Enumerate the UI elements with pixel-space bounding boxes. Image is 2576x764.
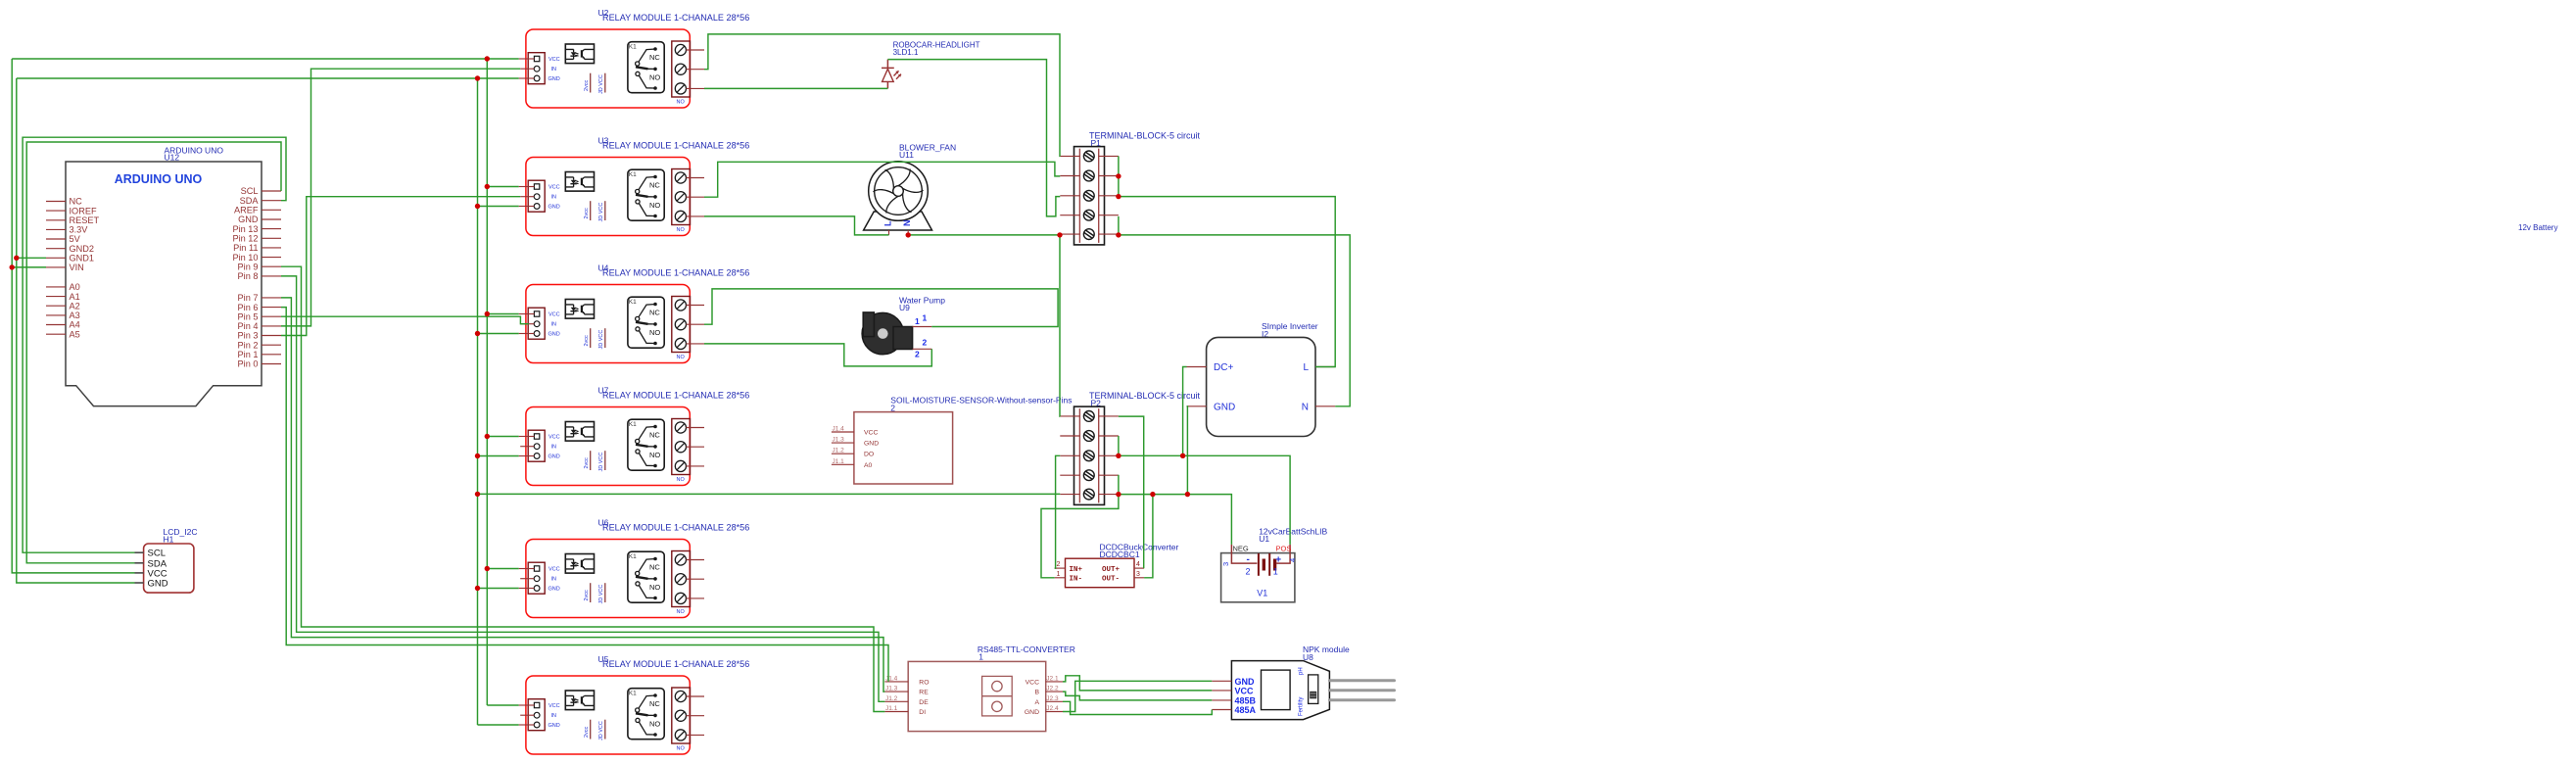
svg-text:VCC: VCC [549,703,560,709]
wire GND bus to U3 GND [478,206,519,208]
junction U6 GND tap [475,586,480,591]
battery POS pin [1276,545,1290,563]
pin P2 pin 2 right stub [1099,435,1119,437]
pin U12 pin A3 [46,314,66,316]
junction P1 pin2 right junction [1116,173,1121,178]
svg-text:J1.1: J1.1 [885,705,898,712]
svg-text:3: 3 [1136,571,1140,578]
pin DCDCBC1 pin 3 OUT- [1134,577,1144,579]
pin U12 pin Pin 6 [262,307,281,309]
wire VIN to 12V rail [12,266,46,268]
wire VCC bus vertical [486,59,488,705]
pin U11 pin N [907,230,909,235]
svg-text:IN: IN [551,577,557,583]
wire P2 pin1 to DCDC OUT+ [1119,416,1144,568]
wire GND bus vertical [477,78,479,725]
wire 12V rail left drop to LCD VCC [12,59,134,573]
pin U2 VCC stub [519,58,535,60]
junction P1 pin5 right junction [1116,232,1121,237]
svg-text:2vcc: 2vcc [584,726,590,738]
dcdc DCDCBC1 body [1066,558,1135,588]
relay U7 screw COM [675,442,686,453]
pin U5 terminal COM stub [687,715,705,717]
svg-text:1: 1 [923,313,928,323]
svg-text:K1: K1 [629,691,637,697]
svg-text:A: A [1034,699,1039,706]
relay U3 2vcc net label [590,201,592,220]
svg-text:NO: NO [649,73,660,82]
pin U12 pin Pin 7 [262,297,281,299]
junction U7 GND tap [475,454,480,458]
pin P2 pin 3 left stub [1060,454,1079,456]
svg-text:DC+: DC+ [1214,362,1233,373]
svg-text:RO: RO [919,679,929,686]
svg-text:SCL: SCL [241,186,259,196]
svg-text:NO: NO [677,100,686,106]
wire P2 pin5 to DCDC IN- [1041,495,1119,578]
pin U3 VCC stub [519,186,535,188]
svg-text:ARDUINO UNO: ARDUINO UNO [115,172,203,186]
pin P1 pin 3 right stub [1099,195,1119,197]
relay U5 screw NO [675,730,686,740]
junction P2 pin3 right junction [1116,454,1121,458]
relay U6 JD VCC net label [604,583,606,602]
svg-text:SOIL-MOISTURE-SENSOR-Without-s: SOIL-MOISTURE-SENSOR-Without-sensor-Pins [890,396,1072,406]
led 3LD1.1 symbol [882,60,894,89]
svg-text:DO: DO [864,452,874,458]
pin P1 pin 1 left stub [1060,155,1079,157]
pin RS485 pin J1.3 RE [884,691,908,692]
pin U2 GND stub [519,77,535,79]
svg-text:GND: GND [148,579,168,590]
svg-text:A0: A0 [864,462,873,469]
pin U12 pin Pin 3 [262,335,281,337]
svg-text:IN: IN [551,67,557,72]
svg-text:VCC: VCC [1235,686,1255,695]
pin U12 pin Pin 4 [262,325,281,327]
pin soil pin J1.1 A0 [832,463,854,465]
pin U6 IN stub [520,578,534,580]
svg-text:VCC: VCC [1026,679,1039,686]
battery cell bars [1258,553,1260,576]
svg-text:IN-: IN- [1070,576,1083,584]
pin U12 pin GND [262,218,281,220]
svg-text:NO: NO [649,328,660,337]
svg-text:U9: U9 [899,303,910,312]
relay U7 contactor K1 [628,419,664,470]
pin U12 pin IOREF [46,210,66,212]
svg-text:2vcc: 2vcc [584,590,590,601]
pin H1 pin SCL [135,551,144,553]
relay module U5 body [526,676,690,754]
junction U7 VCC tap [485,434,490,439]
relay U3 input connector J [528,180,545,212]
svg-text:IN+: IN+ [1070,566,1083,574]
pin U4 GND stub [519,333,535,335]
svg-text:J2.1: J2.1 [1046,675,1059,682]
svg-text:2: 2 [1057,561,1061,568]
wire U3 COM to P1 pin2 [704,162,1060,197]
svg-text:Pin 4: Pin 4 [238,321,259,331]
wire Pin4 to U2 IN [281,69,520,326]
relay U6 screw NO [675,593,686,603]
svg-text:K1: K1 [629,44,637,51]
pin I2 pin L [1315,366,1335,368]
wire P1 pin3 to inverter L [1119,197,1335,367]
junction VCC bus origin [485,56,490,61]
pin U7 terminal NC stub [687,427,705,429]
svg-text:J2.4: J2.4 [1046,705,1059,712]
svg-text:RELAY MODULE 1-CHANALE 28*56: RELAY MODULE 1-CHANALE 28*56 [602,523,749,533]
pin U6 terminal NC stub [687,559,705,561]
wire Pin7 to RS485 RE [281,298,884,692]
relay U4 output terminal [672,297,691,353]
relay U5 output terminal [672,688,691,743]
pin P1 pin 3 left stub [1060,195,1079,197]
svg-text:OUT+: OUT+ [1102,566,1121,574]
svg-text:POS: POS [1276,545,1292,553]
pin U3 IN stub [520,196,534,198]
terminal P2 screw 5 [1083,489,1094,500]
relay U7 output terminal [672,419,691,475]
svg-text:IN: IN [551,195,557,201]
svg-text:1: 1 [915,316,920,326]
pin P2 pin 1 left stub [1060,415,1079,417]
svg-text:NEG: NEG [1233,545,1249,553]
pin DCDCBC1 pin 4 OUT+ [1134,567,1144,569]
pin U5 VCC stub [519,704,535,706]
svg-text:NO: NO [649,201,660,210]
svg-text:Pin 3: Pin 3 [238,331,259,341]
pin U7 terminal NO stub [687,465,705,467]
pin U7 IN stub [520,446,534,448]
svg-text:RELAY MODULE 1-CHANALE 28*56: RELAY MODULE 1-CHANALE 28*56 [602,659,749,669]
pin U5 IN stub [520,714,534,716]
wire GND rail top [17,77,519,79]
svg-text:JD VCC: JD VCC [598,453,604,472]
relay U4 screw NC [675,300,686,310]
relay module U4 body [526,285,690,363]
relay U5 input connector J [528,699,545,731]
svg-text:1: 1 [1057,571,1061,578]
svg-text:IN: IN [551,445,557,451]
pin U7 VCC stub [519,436,535,438]
relay U2 output terminal [672,41,691,97]
relay U4 2vcc net label [590,328,592,348]
relay module U6 body [526,540,690,618]
junction U4 VCC tap [485,311,490,316]
junction fan N junction [906,232,911,237]
svg-text:VCC: VCC [549,185,560,191]
pin U12 pin GND1 [46,257,66,259]
svg-text:SImple Inverter: SImple Inverter [1262,321,1318,331]
pin U2 IN stub [520,68,534,70]
svg-text:VIN: VIN [70,263,84,272]
svg-text:NO: NO [649,720,660,729]
wire P2 right tie pins 4-5 [1118,475,1120,495]
svg-text:A2: A2 [70,301,80,310]
wire P2 right tie pins 2-3 [1118,436,1120,455]
junction U4 GND tap [475,331,480,336]
terminal P2 screw 3 [1083,451,1094,461]
pin U12 pin A5 [46,333,66,335]
svg-text:AREF: AREF [234,206,259,215]
pin U6 terminal NO stub [687,597,705,599]
terminal P1 screw 5 [1083,229,1094,240]
wire GND bus to U5 GND [478,724,519,726]
svg-text:A1: A1 [70,292,80,302]
svg-text:A3: A3 [70,310,80,320]
svg-text:Pin 0: Pin 0 [238,359,259,369]
svg-text:NO: NO [677,355,686,360]
relay U5 optocoupler [565,691,594,710]
svg-text:2vcc: 2vcc [584,457,590,469]
svg-text:pH: pH [1299,667,1305,675]
svg-text:Pin 13: Pin 13 [232,224,258,234]
svg-text:2vcc: 2vcc [584,208,590,219]
U8 inner chip [1262,670,1291,710]
svg-text:DCDCBC1: DCDCBC1 [1100,549,1140,559]
svg-text:Pin 2: Pin 2 [238,340,259,350]
svg-text:N: N [902,220,912,227]
svg-text:NO: NO [649,451,660,459]
U8 probe prongs [1329,679,1394,682]
pin U4 terminal NO stub [687,343,705,345]
relay U2 contactor K1 [628,42,664,93]
svg-text:U1: U1 [1259,534,1269,544]
wire P1 right tie pins 1-3 [1118,156,1120,196]
junction VIN junction [10,264,15,269]
RS485 jumper header [982,676,1013,716]
wire P1 pin5 to P2 pin1 [1059,235,1061,416]
pin U12 pin Pin 11 [262,247,281,249]
pin U2 terminal NO stub [687,87,705,89]
pin U12 pin 3.3V [46,228,66,230]
svg-text:2: 2 [915,350,920,359]
svg-text:Pin 1: Pin 1 [238,350,259,359]
svg-text:JD VCC: JD VCC [598,585,604,604]
svg-text:J2.2: J2.2 [1046,686,1059,692]
relay module U3 body [526,158,690,236]
relay U2 screw NC [675,44,686,55]
pin RS485 pin J2.2 B [1046,691,1063,692]
pin U4 terminal COM stub [687,323,705,325]
svg-text:RS485-TTL-CONVERTER: RS485-TTL-CONVERTER [978,645,1075,654]
U8 switch [1309,675,1318,704]
pin U12 pin A0 [46,286,66,288]
terminal P2 screw 4 [1083,470,1094,481]
svg-text:GND: GND [1235,677,1256,687]
svg-text:GND: GND [549,205,560,211]
relay U7 optocoupler [565,422,594,442]
wire GND bus to U7 GND [478,455,519,457]
pin U12 pin 5V [46,238,66,240]
junction U3 GND tap [475,204,480,209]
pump U9 body [862,312,903,354]
wire GND1 to GND rail [17,257,46,259]
pin U5 GND stub [519,724,535,726]
wire P2 pin3 to inverter DC+ [1183,367,1187,456]
svg-text:A0: A0 [70,282,80,292]
pin DCDCBC1 pin 2 IN+ [1055,567,1066,569]
svg-text:RELAY MODULE 1-CHANALE 28*56: RELAY MODULE 1-CHANALE 28*56 [602,391,749,401]
svg-text:5V: 5V [70,234,81,244]
svg-text:NO: NO [677,746,686,752]
wire SCL to LCD [26,142,281,563]
wire Pin5 to U4 IN [281,316,529,324]
pin U12 pin A4 [46,324,66,326]
wire VCC bus to U6 VCC [487,568,518,570]
pin U9 pin 2 stub [913,348,932,350]
pin RS485 pin J2.4 GND [1046,711,1063,713]
pin H1 pin GND [135,582,144,584]
wire P2 pin3 to DCDC IN+ [1055,455,1061,568]
terminal P1 screw 3 [1083,190,1094,201]
relay U6 output terminal [672,551,691,607]
svg-text:TERMINAL-BLOCK-5 circuit: TERMINAL-BLOCK-5 circuit [1089,391,1201,401]
svg-text:GND: GND [549,587,560,593]
pin U8 pin 485A [1212,709,1231,711]
svg-text:Pin 11: Pin 11 [233,243,258,253]
svg-text:A5: A5 [70,329,80,339]
wire P2 pin5 to inverter GND [1186,406,1189,495]
svg-text:VCC: VCC [549,567,560,573]
svg-text:Pin 9: Pin 9 [238,262,259,271]
pin U12 pin Pin 1 [262,354,281,356]
pin U6 terminal COM stub [687,578,705,580]
wire U4 COM to pump pin1 [704,289,1058,327]
pin soil pin J1.3 GND [832,442,854,444]
relay U6 input connector J [528,562,545,594]
pin U9 pin 1 stub [913,326,932,328]
svg-text:NO: NO [677,227,686,233]
wire RS485 A to NPK 485A [1063,701,1212,714]
pin U12 pin Pin 13 [262,228,281,230]
svg-text:4: 4 [1136,561,1140,568]
pin U12 pin Pin 2 [262,344,281,346]
relay U6 contactor K1 [628,551,664,602]
pin U12 pin VIN [46,266,66,268]
svg-text:2vcc: 2vcc [584,79,590,91]
pin soil pin J1.4 VCC [832,431,854,433]
relay U5 screw NC [675,691,686,701]
svg-text:GND: GND [549,723,560,729]
junction P2 pin5 right junction [1116,492,1121,497]
svg-text:J1.1: J1.1 [833,458,845,465]
pin U11 pin L [888,230,890,235]
svg-text:2: 2 [923,338,928,348]
wire P1 pin5 to inverter N [1119,235,1350,406]
relay U4 screw NO [675,338,686,349]
pin P1 pin 4 right stub [1099,215,1119,216]
svg-text:Pin 10: Pin 10 [232,253,258,263]
svg-text:U11: U11 [899,150,914,160]
terminal block P1 body [1074,147,1105,245]
wire P1 right tie pins 4-5 [1118,216,1120,235]
relay U2 2vcc net label [590,73,592,93]
pin P1 pin 1 right stub [1099,155,1119,157]
wire fan N to P1 pin5 [908,234,1060,236]
svg-text:JD VCC: JD VCC [598,74,604,94]
svg-text:VCC: VCC [549,312,560,318]
pin RS485 pin J1.4 RO [884,681,908,683]
pin U12 pin SDA [262,200,281,202]
pin I2 pin DC+ [1187,366,1207,368]
svg-text:DE: DE [919,699,929,706]
junction inverter GND tap [1185,492,1190,497]
wire VCC bus to U4 VCC [487,313,518,315]
pin U12 pin Pin 8 [262,275,281,277]
wire U2 COM to P1 pin1 [704,34,1060,156]
relay U6 screw COM [675,574,686,585]
relay U3 screw NC [675,172,686,183]
pin H1 pin SDA [135,562,144,564]
wire U4 NO to pump pin2 [704,344,931,366]
wire U3 NO to fan L [704,216,889,235]
wire RS485 VCC to NPK VCC [1063,676,1212,691]
pin RS485 pin J1.2 DE [884,700,908,702]
wire GND rail to P2 pin5 [478,493,1061,495]
svg-text:VCC: VCC [549,57,560,63]
wire RS485 GND to NPK GND [1063,681,1212,711]
pin soil pin J1.2 DO [832,453,854,454]
junction U3 VCC tap [485,184,490,189]
svg-text:485A: 485A [1235,705,1257,715]
wire GND bus to U4 GND [478,333,519,335]
wire Pin6 to RS485 RO [281,308,888,682]
pin U4 VCC stub [519,313,535,315]
svg-text:GND2: GND2 [70,244,95,254]
junction soil GND rail tap [475,492,480,497]
svg-text:3.3V: 3.3V [70,225,89,235]
pin U12 pin SCL [262,190,281,192]
svg-text:J1.4: J1.4 [885,675,898,682]
inverter I2 body [1207,337,1315,436]
svg-text:J1.2: J1.2 [885,695,898,702]
relay U2 JD VCC net label [604,73,606,93]
junction DC+ tap [1180,454,1185,458]
svg-text:H1: H1 [164,535,174,545]
svg-text:B: B [1034,690,1039,696]
svg-text:K1: K1 [629,299,637,306]
svg-text:V1: V1 [1257,589,1267,598]
svg-text:K1: K1 [629,421,637,428]
sensor 2 SOIL-MOISTURE body [854,412,953,484]
svg-text:3LD1.1: 3LD1.1 [893,48,919,57]
svg-text:2: 2 [1246,567,1251,577]
pin DCDCBC1 pin 1 IN- [1055,577,1066,579]
svg-text:VCC: VCC [864,430,878,437]
wire VCC bus to U7 VCC [487,436,518,438]
pin RS485 pin J1.1 DI [884,711,908,713]
svg-text:Pin 5: Pin 5 [238,311,259,321]
relay U4 contactor K1 [628,297,664,348]
pin U12 pin Pin 10 [262,257,281,259]
module H1 LCD_I2C body [144,544,194,593]
pin U2 terminal COM stub [687,69,705,71]
svg-text:RELAY MODULE 1-CHANALE 28*56: RELAY MODULE 1-CHANALE 28*56 [602,13,749,23]
svg-text:Pin 6: Pin 6 [238,303,259,312]
pin U12 pin Pin 0 [262,363,281,365]
svg-text:-: - [1247,554,1250,565]
svg-text:NC: NC [649,180,660,189]
terminal P1 screw 4 [1083,210,1094,220]
svg-text:SCL: SCL [148,549,166,559]
pin U3 GND stub [519,206,535,208]
svg-text:1: 1 [978,652,983,662]
junction P1 pin3 right junction [1116,194,1121,199]
relay U2 input connector J [528,53,545,84]
